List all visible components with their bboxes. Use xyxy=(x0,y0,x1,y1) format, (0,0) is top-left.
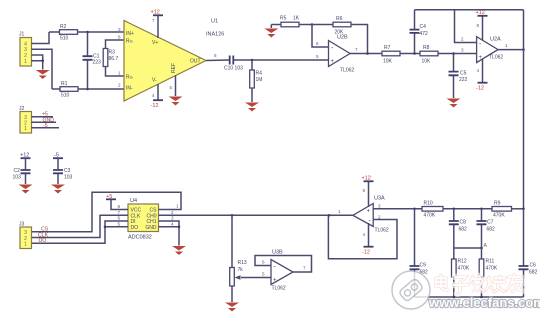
wire output up to top feedback xyxy=(523,10,525,50)
svg-text:U3B: U3B xyxy=(272,250,283,256)
svg-text:222: 222 xyxy=(459,77,468,83)
white circle with camera icon xyxy=(392,271,430,309)
resistor R11 xyxy=(479,248,498,297)
svg-text:6: 6 xyxy=(316,41,319,46)
U2B output wire xyxy=(350,53,382,55)
wire to U2B + input xyxy=(252,59,329,61)
capacitor C4 xyxy=(410,10,429,54)
svg-text:GND: GND xyxy=(145,225,157,231)
svg-text:6: 6 xyxy=(214,53,217,58)
svg-text:86.7: 86.7 xyxy=(109,56,119,62)
svg-text:7k: 7k xyxy=(238,267,244,273)
svg-text:C3: C3 xyxy=(64,168,71,174)
resistor R7 xyxy=(382,45,420,65)
op-amp U3A (points left) xyxy=(338,196,389,234)
ground C3 xyxy=(51,185,65,194)
capacitor C9 xyxy=(410,209,429,297)
capacitor C3 xyxy=(53,153,73,185)
svg-text:REF: REF xyxy=(171,63,177,73)
capacitor C8 xyxy=(449,209,467,248)
capacitor C7 xyxy=(477,209,496,248)
svg-text:3: 3 xyxy=(171,216,174,221)
svg-text:R2: R2 xyxy=(60,24,67,30)
svg-text:R12: R12 xyxy=(458,259,467,265)
svg-text:10K: 10K xyxy=(383,59,393,65)
svg-text:7: 7 xyxy=(355,47,358,52)
resistor R1 xyxy=(52,81,124,99)
CS pin 1 wire over the top to J3 xyxy=(32,192,182,231)
svg-text:TL062: TL062 xyxy=(272,286,286,292)
svg-text:DO: DO xyxy=(39,238,47,244)
svg-text:R10: R10 xyxy=(424,201,433,207)
svg-text:R4: R4 xyxy=(256,71,263,77)
svg-text:J3: J3 xyxy=(19,222,25,228)
ground C5 xyxy=(447,99,461,108)
svg-text:+: + xyxy=(367,209,371,215)
capacitor C2 xyxy=(13,153,31,185)
svg-text:3: 3 xyxy=(118,27,121,32)
svg-text:2: 2 xyxy=(118,83,121,88)
node top xyxy=(86,31,89,34)
svg-text:6: 6 xyxy=(262,260,265,265)
svg-text:V+: V+ xyxy=(152,40,158,46)
svg-text:470K: 470K xyxy=(458,266,470,272)
ground R4 xyxy=(245,103,259,112)
svg-text:R6: R6 xyxy=(336,16,343,22)
svg-text:C6: C6 xyxy=(530,263,537,269)
svg-text:R8: R8 xyxy=(423,45,430,51)
capacitor C6 xyxy=(519,209,538,297)
svg-text:TL062: TL062 xyxy=(340,68,354,74)
svg-text:470K: 470K xyxy=(493,213,505,219)
svg-text:4: 4 xyxy=(152,93,155,98)
svg-text:IN+: IN+ xyxy=(126,31,134,37)
svg-text:OUT: OUT xyxy=(190,59,201,65)
svg-text:TL062: TL062 xyxy=(489,55,503,61)
ground R13 xyxy=(225,303,239,312)
svg-text:6: 6 xyxy=(118,216,121,221)
resistor R6 xyxy=(312,16,368,54)
top feedback wire xyxy=(415,9,524,11)
svg-text:2: 2 xyxy=(461,37,464,42)
U2A -12 xyxy=(476,59,488,92)
node R5/R6 xyxy=(311,23,314,26)
node C10/R4 xyxy=(251,59,254,62)
connector J1 xyxy=(19,32,32,67)
connector J2 xyxy=(19,106,32,133)
op-amp U3B xyxy=(262,250,306,292)
ground R5 xyxy=(264,29,278,38)
U3A +12 xyxy=(362,176,374,208)
svg-text:U3A: U3A xyxy=(374,196,385,202)
svg-text:1: 1 xyxy=(505,43,508,48)
op-amp U2B xyxy=(316,35,358,74)
svg-text:682: 682 xyxy=(529,270,538,276)
svg-text:223: 223 xyxy=(93,60,102,66)
ground U4 xyxy=(172,246,186,255)
svg-text:R7: R7 xyxy=(384,45,391,51)
svg-text:8: 8 xyxy=(363,188,366,193)
DO pin 5 wire to DI node xyxy=(104,221,128,228)
ground REF xyxy=(169,97,183,106)
svg-text:1: 1 xyxy=(24,126,27,132)
node output/feedback xyxy=(328,214,331,217)
svg-text:1: 1 xyxy=(338,209,341,214)
resistor R2 xyxy=(49,24,124,42)
svg-text:ADC0832: ADC0832 xyxy=(128,235,152,241)
net labels J3 xyxy=(38,227,49,245)
capacitor C10 xyxy=(224,56,252,72)
svg-text:-12: -12 xyxy=(151,103,159,109)
resistor R12 xyxy=(452,248,470,297)
svg-text:5: 5 xyxy=(316,54,319,59)
svg-text:+: + xyxy=(331,59,335,65)
svg-text:+12: +12 xyxy=(362,176,371,182)
resistor R10 xyxy=(422,201,492,219)
svg-text:V-: V- xyxy=(152,78,157,84)
svg-text:5: 5 xyxy=(170,85,173,90)
svg-text:682: 682 xyxy=(487,227,496,233)
U2A +12 xyxy=(476,10,488,40)
U3A pin3 wire xyxy=(373,208,422,210)
svg-text:A: A xyxy=(484,243,488,249)
svg-text:103: 103 xyxy=(13,175,22,181)
svg-text:+: + xyxy=(273,278,277,284)
bottom bus wire xyxy=(415,296,524,298)
resistor R5 with ground xyxy=(271,16,312,29)
svg-text:4: 4 xyxy=(477,68,480,73)
junction J1 gnd xyxy=(41,59,44,62)
svg-text:R5: R5 xyxy=(280,16,287,22)
DI pin 6 wire xyxy=(32,216,129,244)
IC U4 ADC0832 xyxy=(128,198,159,241)
svg-text:10K: 10K xyxy=(422,59,432,65)
svg-text:U2B: U2B xyxy=(337,35,348,41)
svg-text:1: 1 xyxy=(176,204,179,209)
svg-text:1: 1 xyxy=(24,241,27,247)
capacitor C1 xyxy=(83,32,102,89)
CH0 pin 2 long wire xyxy=(159,210,354,216)
svg-text:U1: U1 xyxy=(211,19,218,25)
resistor R8 xyxy=(420,45,477,65)
svg-text:TL062: TL062 xyxy=(375,228,389,234)
svg-text:C8: C8 xyxy=(460,220,467,226)
U3B output + feedback loop xyxy=(255,256,312,273)
wire J1 pin3 to R3 xyxy=(32,49,53,89)
svg-text:IN-: IN- xyxy=(126,86,133,92)
J2 wires with net labels xyxy=(32,112,60,129)
svg-text:682: 682 xyxy=(459,227,468,233)
GND pin 4 xyxy=(159,221,181,245)
resistor R4 xyxy=(250,60,263,102)
svg-text:C2: C2 xyxy=(14,168,21,174)
svg-text:R13: R13 xyxy=(238,260,247,266)
svg-text:7: 7 xyxy=(152,18,155,23)
svg-text:C5: C5 xyxy=(460,71,467,77)
svg-text:-5: -5 xyxy=(43,123,48,129)
op-amp U2A xyxy=(461,37,508,63)
svg-text:1: 1 xyxy=(24,59,27,65)
svg-text:1K: 1K xyxy=(293,16,300,22)
node A wire xyxy=(454,247,482,249)
ground C2 xyxy=(19,185,33,194)
svg-text:5: 5 xyxy=(118,221,121,226)
svg-text:R9: R9 xyxy=(494,201,501,207)
svg-text:3: 3 xyxy=(461,48,464,53)
svg-text:8: 8 xyxy=(118,204,121,209)
V+ pin 7 xyxy=(151,10,164,39)
svg-text:J1: J1 xyxy=(19,32,25,38)
svg-text:1M: 1M xyxy=(256,77,263,83)
svg-text:103: 103 xyxy=(64,175,73,181)
V- pin 4 xyxy=(151,84,164,109)
svg-text:-12: -12 xyxy=(362,250,370,256)
svg-text:R1: R1 xyxy=(61,81,68,87)
+5 power for VCC pin 8 xyxy=(106,194,128,210)
svg-text:510: 510 xyxy=(61,93,70,99)
svg-text:U2A: U2A xyxy=(490,37,501,43)
svg-text:2: 2 xyxy=(171,210,174,215)
svg-text:8: 8 xyxy=(477,23,480,28)
REF pin 5 to ground xyxy=(170,76,176,97)
svg-text:www.elecfans.com: www.elecfans.com xyxy=(428,295,540,310)
svg-text:R3: R3 xyxy=(109,50,116,56)
svg-text:-12: -12 xyxy=(476,86,484,92)
svg-text:4: 4 xyxy=(171,221,174,226)
svg-text:+5: +5 xyxy=(106,194,112,200)
node bottom xyxy=(86,88,89,91)
potentiometer R13 xyxy=(230,215,271,302)
svg-text:470K: 470K xyxy=(486,266,498,272)
node CH0/R13 xyxy=(231,214,234,217)
ground J1 xyxy=(36,70,50,79)
svg-text:C9: C9 xyxy=(420,263,427,269)
svg-text:DO: DO xyxy=(131,225,139,231)
resistor R9 xyxy=(492,201,524,219)
svg-text:1: 1 xyxy=(118,71,121,76)
svg-text:+12: +12 xyxy=(151,10,160,16)
U2A output node xyxy=(498,49,524,51)
OUT pin 6 wire xyxy=(206,59,229,62)
connector J3 xyxy=(19,222,32,249)
svg-text:C4: C4 xyxy=(420,24,427,30)
svg-text:472: 472 xyxy=(420,31,429,37)
wire J1 pin2/pin1 to ground xyxy=(32,55,43,70)
svg-text:J2: J2 xyxy=(19,106,25,112)
wire J1 pin4 to R2 xyxy=(32,32,50,44)
svg-text:INA126: INA126 xyxy=(206,32,224,38)
capacitor C5 xyxy=(449,54,468,99)
CLK pin 7 wire to J3 xyxy=(32,210,129,238)
svg-text:4: 4 xyxy=(363,232,366,237)
svg-text:+12: +12 xyxy=(476,10,485,16)
svg-text:3: 3 xyxy=(378,204,381,209)
U3A -12 xyxy=(362,223,374,256)
svg-text:7: 7 xyxy=(303,266,306,271)
svg-text:U4: U4 xyxy=(130,198,137,204)
svg-text:470K: 470K xyxy=(424,213,436,219)
U3A pin2 feedback loop xyxy=(328,215,397,258)
op-amp U1 INA126 xyxy=(118,19,224,102)
wire node down to pin6 xyxy=(312,25,329,48)
svg-text:C7: C7 xyxy=(487,220,494,226)
svg-text:7: 7 xyxy=(118,210,121,215)
long wire down right edge xyxy=(523,50,525,209)
svg-text:8: 8 xyxy=(118,35,121,40)
CH1 pin 3 to GND xyxy=(159,216,180,227)
gain resistor R3 86.7 loop xyxy=(103,40,124,76)
svg-text:R11: R11 xyxy=(486,259,495,265)
svg-text:C10 103: C10 103 xyxy=(224,66,243,72)
svg-text:5: 5 xyxy=(262,272,265,277)
feedback down to pin2 xyxy=(455,10,477,43)
svg-text:510: 510 xyxy=(60,36,69,42)
chinese glyphs 电子发烧友 (hand drawn) xyxy=(436,275,522,294)
